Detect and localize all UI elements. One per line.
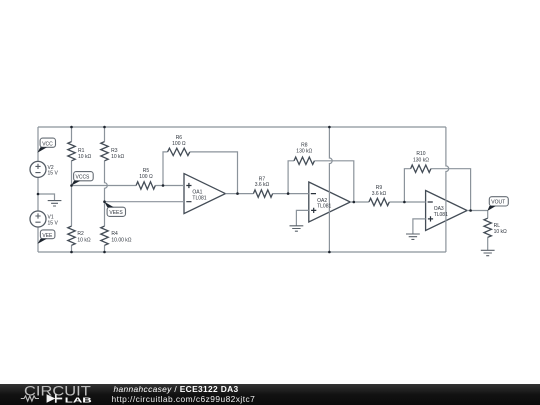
footer url text bbox=[112, 395, 256, 403]
wire OA1 output to R7 to OA2 minus input bbox=[225, 193, 308, 195]
svg-text:VCC: VCC bbox=[42, 141, 53, 147]
resistor R8 zigzag bbox=[294, 157, 314, 164]
svg-text:3.6 kΩ: 3.6 kΩ bbox=[372, 191, 387, 197]
resistor R1 zigzag bbox=[68, 142, 75, 161]
wire OA2 plus input to ground bbox=[296, 210, 308, 225]
resistor R9 zigzag bbox=[369, 198, 389, 205]
svg-text:R2: R2 bbox=[77, 231, 84, 237]
wire ground stub at supply midpoint bbox=[38, 194, 55, 200]
wire OA3 plus input to ground bbox=[413, 219, 426, 234]
resistor RL zigzag bbox=[484, 218, 491, 237]
svg-text:3.6 kΩ: 3.6 kΩ bbox=[255, 182, 270, 188]
wire column R1 R2 bbox=[71, 127, 73, 252]
svg-text:10 kΩ: 10 kΩ bbox=[111, 154, 124, 160]
wire left column segments around V2 and V1 bbox=[37, 127, 39, 252]
node flag VEES bbox=[104, 202, 125, 217]
op-amp OA3 plus minus marks bbox=[428, 202, 434, 222]
resistor R2 zigzag bbox=[68, 226, 75, 245]
svg-text:15 V: 15 V bbox=[48, 171, 59, 177]
footer bar bbox=[0, 384, 540, 405]
svg-text:100 Ω: 100 Ω bbox=[172, 141, 186, 147]
wire OA2 output to R9 to OA3 minus input bbox=[350, 201, 425, 203]
svg-text:130 kΩ: 130 kΩ bbox=[413, 157, 429, 163]
component value labels bbox=[48, 135, 508, 244]
resistor R3 zigzag bbox=[101, 142, 108, 161]
wire vertical rail join at x=329 with hop over R8 loop bbox=[329, 127, 332, 252]
svg-text:R5: R5 bbox=[143, 168, 150, 174]
wire VCCS net to R5 and OA1 plus input bbox=[72, 185, 185, 187]
voltage source V1 bbox=[30, 211, 46, 227]
op-amp U1 OA1 triangle bbox=[184, 174, 225, 214]
svg-text:10 kΩ: 10 kΩ bbox=[494, 229, 507, 235]
svg-text:100 Ω: 100 Ω bbox=[139, 174, 153, 180]
svg-text:TL081: TL081 bbox=[192, 195, 206, 201]
svg-text:R8: R8 bbox=[301, 142, 308, 148]
svg-text:130 kΩ: 130 kΩ bbox=[296, 149, 312, 155]
resistor R6 zigzag bbox=[168, 148, 190, 155]
wire top rail VCC bbox=[38, 126, 446, 128]
svg-text:10.00 kΩ: 10.00 kΩ bbox=[111, 237, 131, 243]
svg-text:R9: R9 bbox=[376, 185, 383, 191]
svg-text:10 kΩ: 10 kΩ bbox=[77, 237, 90, 243]
wire VOUT node down to RL and ground bbox=[487, 211, 489, 250]
svg-text:10 kΩ: 10 kΩ bbox=[78, 154, 91, 160]
svg-text:R10: R10 bbox=[416, 151, 425, 157]
op-amp U2 OA2 triangle bbox=[309, 182, 351, 222]
op-amp U3 OA3 triangle bbox=[426, 191, 468, 231]
node flag VCCS bbox=[71, 172, 93, 186]
wire OA3 output to VOUT node bbox=[467, 210, 488, 212]
ground at OA3 plus input bbox=[406, 234, 420, 239]
wire R10 feedback loop with hop crossing bbox=[404, 169, 470, 211]
op-amp OA1 plus minus marks bbox=[186, 183, 191, 202]
wire bottom rail VEE bbox=[38, 251, 446, 253]
svg-text:VEE: VEE bbox=[42, 233, 53, 239]
footer title text bbox=[114, 385, 239, 393]
op-amp OA2 plus minus marks bbox=[311, 194, 317, 213]
node flag VCC bbox=[37, 138, 55, 153]
ground below RL bbox=[481, 250, 495, 255]
node flag VOUT bbox=[487, 197, 508, 211]
wire column R3 R4 with hop over VCCS wire bbox=[105, 127, 108, 252]
resistor R4 zigzag bbox=[101, 226, 108, 245]
node flag VEE bbox=[38, 230, 55, 244]
CircuitLab logo bbox=[0, 384, 110, 405]
ground at supply midpoint bbox=[48, 201, 62, 206]
svg-text:VOUT: VOUT bbox=[491, 200, 505, 206]
svg-text:VEES: VEES bbox=[109, 210, 123, 216]
wire vertical rail join at x=446 with hop over R10 loop bbox=[446, 127, 449, 252]
svg-text:R4: R4 bbox=[111, 231, 118, 237]
svg-text:LAB: LAB bbox=[65, 395, 93, 404]
svg-text:15 V: 15 V bbox=[48, 220, 59, 226]
resistor R10 zigzag bbox=[411, 165, 431, 172]
resistor R7 zigzag bbox=[253, 190, 272, 197]
svg-text:VCCS: VCCS bbox=[76, 175, 91, 181]
wire VEES net to OA1 minus input bbox=[105, 201, 185, 203]
ground at OA2 plus input bbox=[290, 226, 304, 231]
wire R8 feedback loop bbox=[288, 161, 354, 202]
svg-text:TL081: TL081 bbox=[317, 204, 331, 210]
voltage source V2 bbox=[30, 161, 46, 177]
svg-text:TL081: TL081 bbox=[434, 212, 448, 218]
resistor R5 zigzag bbox=[136, 182, 155, 189]
wire R6 feedback loop bbox=[163, 152, 238, 194]
